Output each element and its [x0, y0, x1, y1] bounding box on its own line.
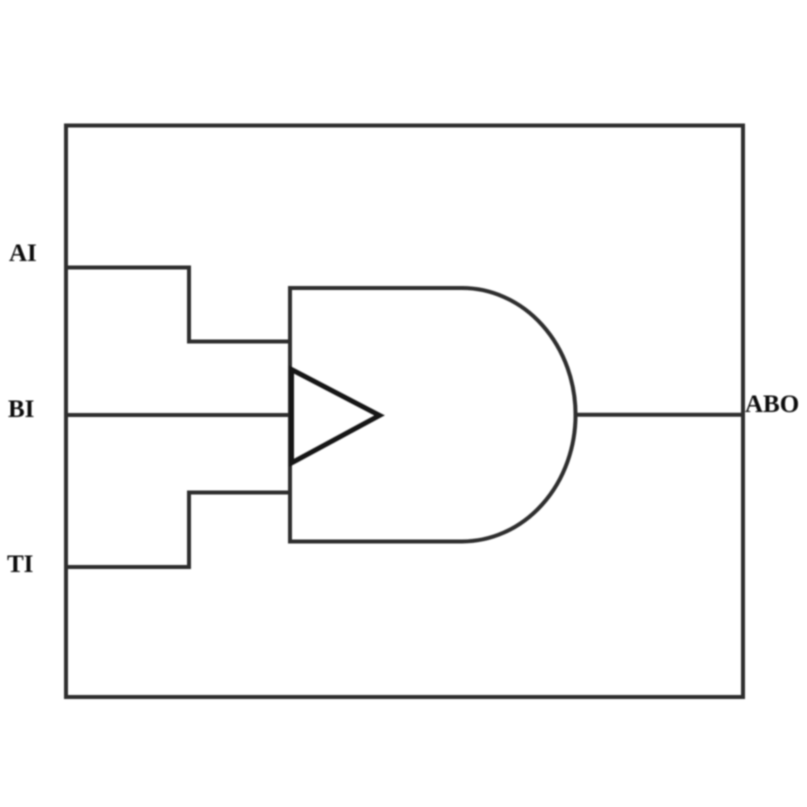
svg-text:TI: TI	[7, 551, 33, 578]
wire TI input (stepped)	[66, 493, 290, 568]
svg-text:BI: BI	[8, 396, 34, 423]
wire ABO output	[575, 413, 743, 417]
svg-text:ABO: ABO	[745, 391, 799, 418]
wire AI input (stepped)	[66, 268, 290, 342]
AND gate U1 body	[290, 288, 576, 542]
enclosing box (cell outline)	[66, 126, 743, 698]
wire BI input	[66, 413, 290, 417]
buffer triangle inside gate	[292, 370, 380, 463]
svg-text:AI: AI	[9, 240, 37, 267]
